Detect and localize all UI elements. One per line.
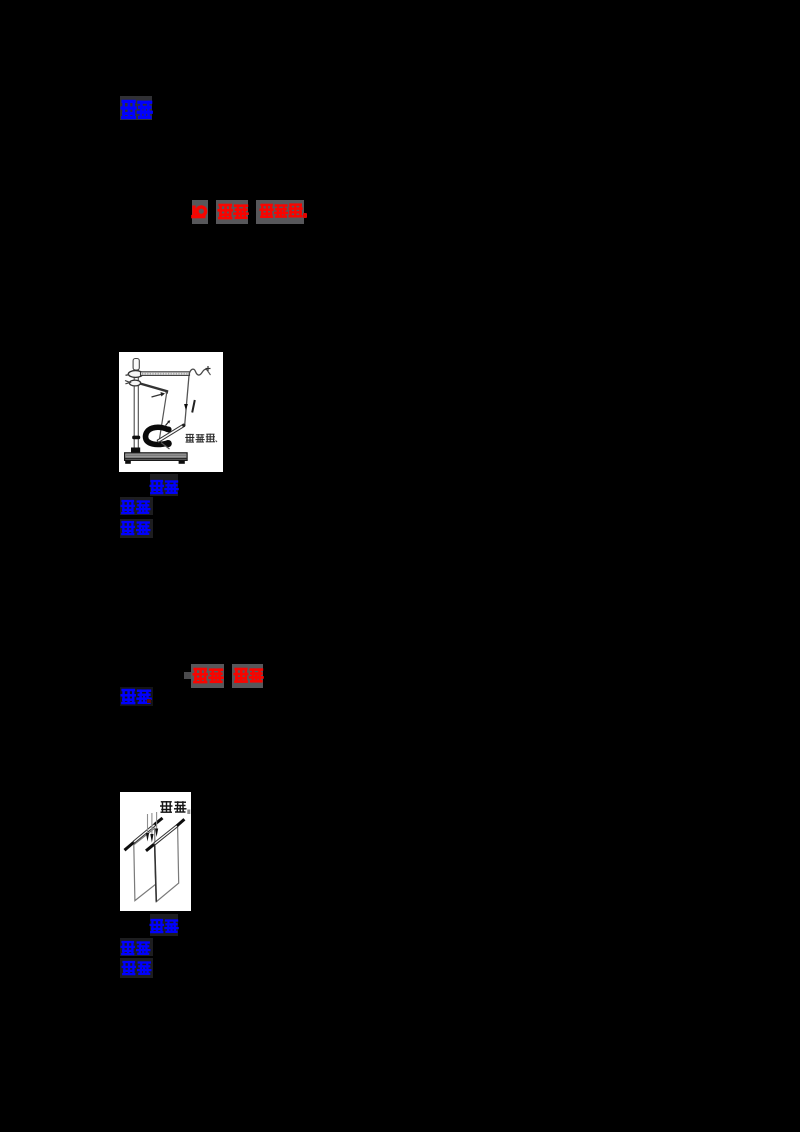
set1 row1 highlight [150, 474, 178, 496]
wire tail below magnet [161, 443, 170, 450]
answer label A1 blue text [120, 98, 154, 124]
current label I [192, 400, 195, 413]
dark red mark after A2 [147, 699, 151, 703]
small arrow toward arm tip [152, 394, 162, 397]
current direction arrowhead [184, 404, 188, 411]
answer label A2 blue text [120, 688, 154, 706]
set2 row1 blue 答案 [149, 918, 181, 935]
middle darker edge [154, 845, 156, 901]
rod bottom block [131, 448, 140, 453]
air arrowheads [145, 833, 148, 842]
blank box B1 shaded [192, 200, 208, 224]
back rod [146, 844, 154, 851]
set1 row3 highlight [120, 519, 153, 538]
label 吹气 [160, 801, 173, 813]
force arrow near magnet [166, 422, 169, 426]
left hanging wire [159, 392, 167, 440]
label 直导线 [185, 434, 194, 442]
front sheet [133, 828, 155, 900]
back sheet [154, 826, 178, 902]
set1 row2 highlight [120, 497, 153, 515]
blank C1 red answer (2 chars) [192, 667, 226, 685]
gray dash before blank C1 [184, 672, 191, 679]
clamp ring 2 [129, 380, 140, 386]
wire squiggle to + terminal [189, 369, 207, 375]
blank B2 red answer (2 chars) [217, 203, 251, 221]
plus sign [206, 366, 211, 371]
blank box C1 shaded [191, 664, 224, 688]
clamp arm [140, 384, 167, 394]
set2 row3 blue 分析 [121, 960, 153, 977]
set2 row2 highlight [120, 938, 153, 956]
answer label A2 faint box [120, 687, 153, 706]
air stream lines [147, 812, 156, 835]
rod top knob [133, 359, 139, 371]
answer label A1 highlight box [120, 96, 153, 120]
front rod [124, 843, 133, 851]
set2 row1 highlight [150, 914, 178, 936]
base feet [125, 460, 131, 463]
red comma after B3 [303, 213, 307, 218]
straight wire rod (直导线) [157, 424, 184, 442]
right vertical wire [185, 376, 189, 426]
blank box B2 shaded [216, 200, 248, 224]
blank box C2 shaded [232, 664, 263, 688]
blank C2 red answer (2 chars) [233, 667, 267, 685]
base slab [125, 453, 188, 461]
figure F2: blow air between two hanging paper sheets [120, 792, 191, 911]
set2 row3 highlight [120, 958, 153, 978]
rod collar [132, 436, 140, 440]
set1 row1 blue 答案 [149, 479, 181, 496]
horseshoe magnet [146, 427, 169, 444]
set2 row2 blue 考查 [120, 940, 152, 957]
crossbar [141, 372, 190, 376]
blank B3 red answer (3 chars) [259, 203, 309, 221]
blank box B3 shaded [256, 200, 304, 224]
small gray mark after label [187, 810, 190, 815]
set1 row2 blue 考查 [120, 499, 152, 516]
stand rod [134, 360, 138, 448]
clamp ring 1 [128, 371, 142, 378]
figure F1: stand + horseshoe magnet + straight wire experiment [119, 352, 223, 472]
set1 row3 blue 分析 [120, 520, 152, 537]
blank B1 red answer "10" [190, 203, 210, 221]
